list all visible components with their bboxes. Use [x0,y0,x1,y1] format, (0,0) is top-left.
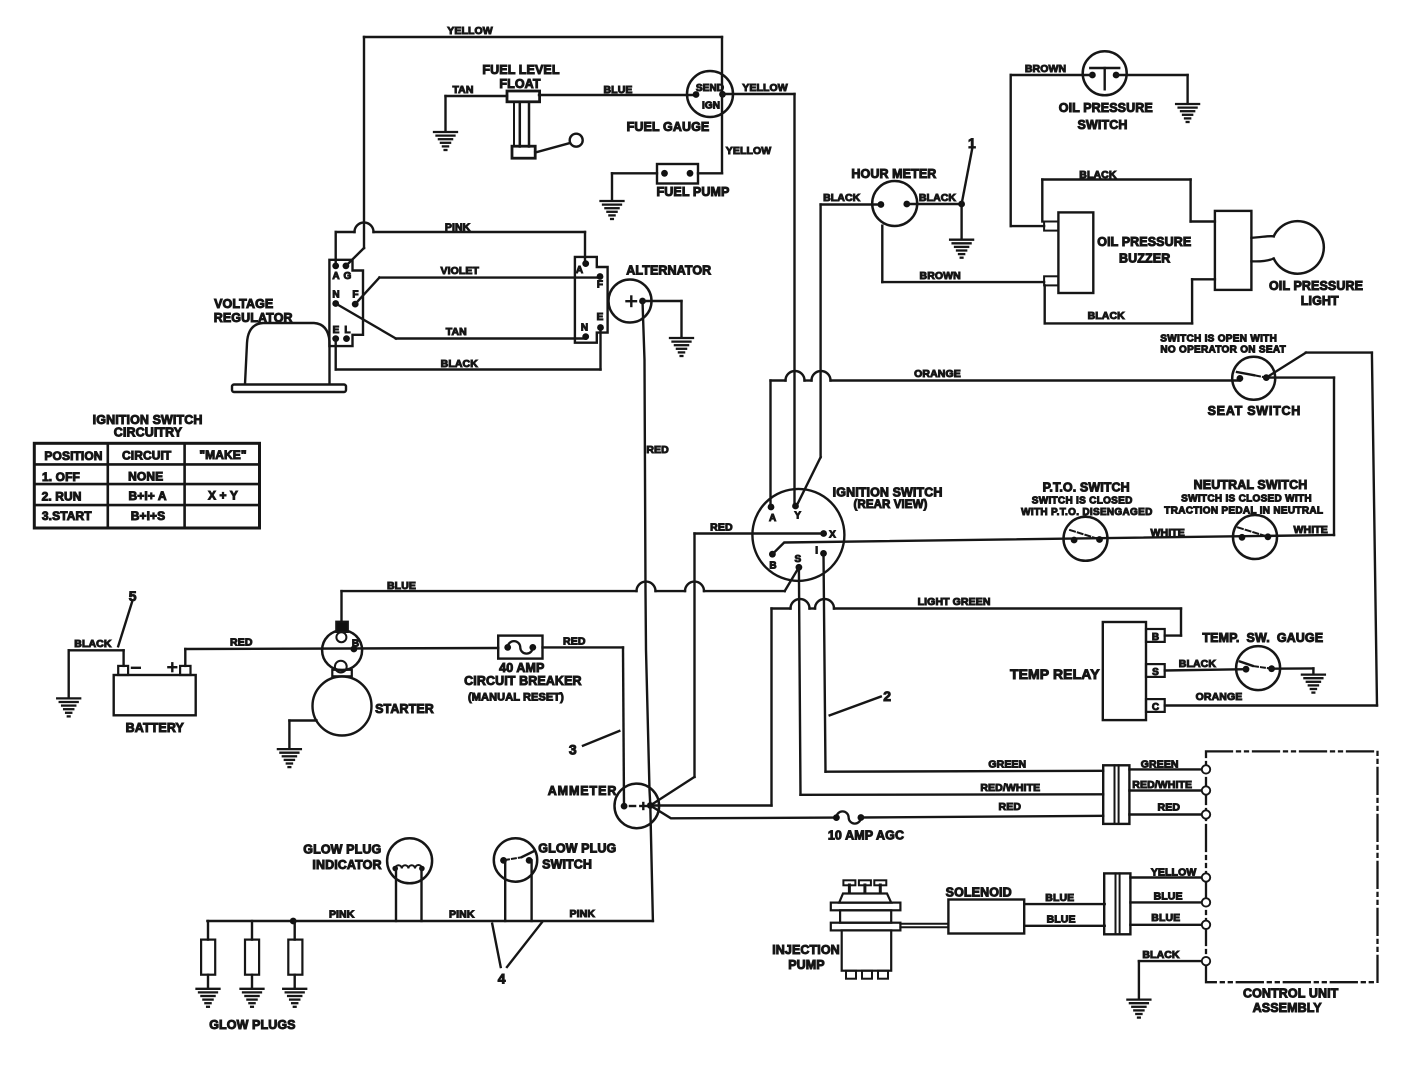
pin S ignition [795,554,803,571]
svg-text:SEND: SEND [696,83,724,94]
svg-text:VIOLET: VIOLET [441,265,480,277]
wire yellow drop to fuel gauge [721,37,723,94]
svg-text:PINK: PINK [449,909,475,921]
svg-text:10 AMP AGC: 10 AMP AGC [828,829,904,843]
wire BROWN hour meter to buzzer [882,226,1044,282]
svg-text:GREEN: GREEN [988,759,1026,771]
temp sw gauge [1202,631,1323,690]
pin N alternator [581,322,589,340]
wire RED fuse feed [650,801,1103,843]
svg-text:S: S [1152,667,1159,678]
injection pump [772,880,900,978]
svg-text:LIGHT: LIGHT [1301,294,1339,308]
svg-text:BLACK: BLACK [1179,658,1217,670]
wire oil switch to ground [1116,75,1188,103]
svg-text:IGN: IGN [702,101,720,112]
svg-text:BLACK: BLACK [919,192,957,204]
svg-text:1. OFF: 1. OFF [42,470,80,484]
wire ORANGE seat switch [771,368,1240,507]
pin L regulator [343,325,351,342]
svg-text:E: E [597,312,604,323]
svg-text:BLUE: BLUE [1047,913,1076,925]
wire pink drop to alternator A [584,262,587,265]
svg-text:BROWN: BROWN [1025,63,1066,75]
svg-text:A: A [576,265,583,276]
neutral switch [1164,478,1323,559]
svg-text:G: G [344,271,352,282]
svg-text:N: N [581,322,588,333]
wire BLUE ignition to starter [342,567,799,621]
svg-text:OIL PRESSURE: OIL PRESSURE [1059,101,1153,115]
svg-text:PINK: PINK [445,222,471,234]
wire BLUE to control unit 1 [1130,891,1202,903]
ground hour meter [950,240,973,258]
svg-text:RED: RED [646,444,669,456]
link pump to solenoid [900,924,948,927]
svg-text:GLOW PLUG: GLOW PLUG [538,841,616,855]
wire RED/WHITE ignition S [799,567,1103,795]
wire BLUE to control unit 2 [1130,912,1202,925]
ground alternator [670,338,693,356]
wire RED alternator down [643,301,670,806]
svg-text:N: N [332,290,339,301]
svg-text:3: 3 [569,742,577,758]
alternator connector block [575,257,608,343]
regulator connector block [329,260,363,346]
svg-text:L: L [344,325,350,336]
svg-text:BLUE: BLUE [604,84,633,96]
svg-text:CIRCUIT: CIRCUIT [122,448,172,462]
wire BLACK battery [69,638,124,697]
wire WHITE [772,524,1334,554]
wire PINK glow plugs [207,806,653,925]
ground glow plug 3 [283,989,306,1007]
svg-text:RED: RED [230,637,253,649]
wire YELLOW gauge to fuel pump [698,94,771,173]
callout 4 leaders [492,922,542,987]
wire fuel pump to ground [612,173,657,200]
svg-text:BLACK: BLACK [823,192,861,204]
wire BLUE float to gauge [539,84,693,96]
svg-text:BLACK: BLACK [1079,169,1117,181]
svg-text:ORANGE: ORANGE [914,368,961,380]
wire BLACK buzzer top [1042,169,1215,222]
svg-text:3.START: 3.START [42,509,92,523]
wire seat switch to white [1266,378,1334,535]
ammeter [548,784,659,829]
ignition switch [752,485,942,581]
hour meter [851,167,936,226]
ground fuel sender [434,132,457,150]
wire LIGHT GREEN [650,596,1181,806]
oil pressure switch [1059,51,1153,132]
svg-text:PINK: PINK [570,908,596,920]
connector lower [1104,873,1130,934]
starter solenoid [322,622,362,673]
svg-text:4: 4 [498,971,506,987]
svg-text:SOLENOID: SOLENOID [946,885,1012,899]
svg-text:REGULATOR: REGULATOR [214,311,293,325]
svg-text:VOLTAGE: VOLTAGE [214,297,273,311]
control unit assembly box [1202,751,1378,1015]
svg-text:FUEL GAUGE: FUEL GAUGE [627,120,710,134]
svg-text:X + Y: X + Y [208,489,238,503]
wire ORANGE temp relay [1165,691,1377,706]
oil pressure buzzer [1044,212,1191,293]
svg-text:LIGHT GREEN: LIGHT GREEN [918,596,991,608]
svg-text:BLACK: BLACK [441,358,479,370]
circuit breaker 40A [464,636,581,704]
svg-text:BLACK: BLACK [74,638,112,650]
svg-text:B+I+S: B+I+S [131,509,166,523]
glow plug 3 [288,921,302,988]
svg-text:RED: RED [563,636,586,648]
svg-text:HOUR METER: HOUR METER [851,167,936,181]
svg-text:RED/WHITE: RED/WHITE [1132,779,1192,791]
pin A alternator [576,260,589,276]
svg-text:FLOAT: FLOAT [499,77,540,91]
svg-text:IGNITION SWITCH: IGNITION SWITCH [833,485,943,499]
svg-text:SEAT SWITCH: SEAT SWITCH [1208,404,1301,418]
wire BROWN oil switch [1011,63,1093,226]
pin I ignition [815,545,827,556]
glow plug 2 [245,921,259,988]
svg-text:ASSEMBLY: ASSEMBLY [1253,1001,1323,1015]
svg-text:BROWN: BROWN [920,270,961,282]
battery [114,663,196,735]
seat switch [1160,334,1301,419]
wire RED battery to starter [185,637,498,666]
wire YELLOW gauge to ignition [724,82,795,506]
svg-text:SWITCH IS CLOSED WITH: SWITCH IS CLOSED WITH [1181,494,1312,505]
temp relay [1010,622,1165,720]
wire RED breaker to ammeter [543,636,625,807]
alternator [609,264,712,323]
svg-text:GLOW PLUG: GLOW PLUG [303,842,381,856]
voltage regulator bell [214,297,346,392]
svg-text:YELLOW: YELLOW [726,145,772,157]
svg-text:5: 5 [129,588,137,604]
svg-text:I: I [815,545,818,556]
solenoid [946,885,1025,933]
svg-text:STARTER: STARTER [375,702,434,716]
oil pressure light [1215,211,1363,308]
svg-text:ORANGE: ORANGE [1196,691,1243,703]
wire YELLOW to control unit [1130,867,1202,879]
svg-text:(MANUAL RESET): (MANUAL RESET) [468,692,564,704]
wire TAN fuel sender [446,84,508,131]
svg-text:WHITE: WHITE [1294,524,1328,536]
pin N regulator [332,290,339,307]
svg-text:PINK: PINK [329,909,355,921]
callout 3 leader [569,731,619,758]
svg-text:40 AMP: 40 AMP [499,661,544,675]
svg-text:CONTROL UNIT: CONTROL UNIT [1243,987,1339,1001]
pin F alternator [597,273,604,290]
pin B ignition [769,551,777,572]
svg-text:Y: Y [794,510,801,521]
svg-text:BLACK: BLACK [1088,310,1126,322]
svg-text:"MAKE": "MAKE" [199,448,246,462]
svg-text:WHITE: WHITE [1151,527,1185,539]
wire BLACK control unit [1139,949,1202,999]
svg-text:NEUTRAL SWITCH: NEUTRAL SWITCH [1194,478,1308,492]
wire GREEN to control unit [1129,758,1202,770]
svg-text:YELLOW: YELLOW [742,82,788,94]
svg-text:B: B [1152,632,1159,643]
svg-text:INDICATOR: INDICATOR [312,858,381,872]
wire BLUE solenoid top [1024,892,1105,904]
pin E alternator [597,312,604,331]
svg-text:FUEL PUMP: FUEL PUMP [657,185,730,199]
svg-text:E: E [333,325,340,336]
svg-text:CIRCUITRY: CIRCUITRY [114,426,183,440]
pin A regulator [332,263,339,283]
label GLOW PLUGS [209,1018,295,1032]
fuel pump [657,164,730,199]
svg-text:BLUE: BLUE [1045,892,1074,904]
wire YELLOW top run [364,25,722,248]
wire RED/WHITE to control unit [1129,779,1202,791]
glow plug 1 [201,921,215,988]
pin X ignition [820,529,836,540]
connector upper [1103,765,1129,824]
wire starter ground [289,721,316,749]
svg-text:TAN: TAN [446,326,467,338]
svg-text:SWITCH IS CLOSED: SWITCH IS CLOSED [1032,495,1133,506]
pin A ignition [768,504,777,524]
svg-text:OIL PRESSURE: OIL PRESSURE [1269,279,1363,293]
wire BLACK hour meter left [797,192,881,506]
svg-text:B: B [352,638,359,649]
svg-text:X: X [829,529,836,540]
callout 2 leader [830,688,892,715]
svg-text:F: F [352,290,358,301]
svg-text:RED/WHITE: RED/WHITE [980,782,1040,794]
svg-text:TEMP RELAY: TEMP RELAY [1010,666,1100,682]
svg-text:F: F [597,279,603,290]
svg-text:WITH P.T.O. DISENGAGED: WITH P.T.O. DISENGAGED [1021,507,1152,518]
svg-text:BLUE: BLUE [1154,891,1183,903]
label FUEL LEVEL FLOAT [482,63,559,91]
pin G regulator [343,263,352,283]
glow plug indicator [303,838,432,921]
pin F regulator [352,290,359,308]
svg-text:RED: RED [1158,802,1181,814]
svg-text:A: A [769,513,776,524]
svg-text:RED: RED [999,801,1022,813]
svg-text:FUEL LEVEL: FUEL LEVEL [482,63,559,77]
svg-text:INJECTION: INJECTION [772,943,840,957]
svg-text:SWITCH: SWITCH [1078,118,1128,132]
svg-text:PUMP: PUMP [788,958,825,972]
svg-text:NONE: NONE [128,470,163,484]
svg-text:C: C [1152,702,1159,713]
svg-text:SWITCH IS OPEN WITH: SWITCH IS OPEN WITH [1160,334,1277,345]
wire RED ignition X [650,522,823,806]
wire BLUE solenoid bottom [1024,913,1105,926]
ground glow plug 1 [197,989,220,1007]
wire GREEN ignition I [824,553,1104,771]
svg-text:GLOW PLUGS: GLOW PLUGS [209,1018,295,1032]
wire alternator to ground [643,301,682,337]
glow plug switch [494,838,616,921]
starter motor [313,670,434,736]
wire PINK [336,222,585,266]
svg-text:A: A [332,271,339,282]
ground control unit [1127,1000,1150,1018]
pin Y ignition [792,503,801,522]
wire VIOLET [355,265,600,304]
wire BLACK buzzer bottom [1045,279,1215,323]
svg-text:BLUE: BLUE [387,580,416,592]
wire BLACK regulator [336,328,601,370]
svg-text:RED: RED [710,522,733,534]
svg-text:POSITION: POSITION [44,449,102,463]
svg-text:YELLOW: YELLOW [447,25,493,37]
ground oil pressure switch [1176,104,1199,122]
svg-text:OIL PRESSURE: OIL PRESSURE [1097,235,1191,249]
svg-text:BATTERY: BATTERY [126,721,185,735]
pin E regulator [332,325,339,342]
svg-text:BLUE: BLUE [1151,912,1180,924]
svg-text:(REAR VIEW): (REAR VIEW) [854,499,928,511]
ground battery [57,698,80,716]
callout 5 leader [118,588,137,647]
ground starter [278,749,301,767]
svg-text:BLACK: BLACK [1142,949,1180,961]
svg-text:P.T.O. SWITCH: P.T.O. SWITCH [1043,480,1130,494]
svg-text:TAN: TAN [452,84,473,96]
ground temp gauge [1302,675,1325,693]
ignition switch circuitry table [34,413,259,528]
wire RED to control unit [1129,802,1202,815]
svg-text:1: 1 [968,135,976,151]
svg-text:TEMP. SW. GAUGE: TEMP. SW. GAUGE [1202,631,1323,645]
wire BLACK temp gauge [1165,658,1314,674]
svg-text:S: S [795,554,802,565]
wire yellow diagonal to G [347,248,365,265]
fuel level float [507,91,583,158]
wire BLACK hour meter right [907,192,965,239]
wire TAN regulator [336,304,586,339]
svg-text:2: 2 [883,688,891,704]
svg-text:AMMETER: AMMETER [548,784,618,798]
svg-text:2. RUN: 2. RUN [42,489,82,503]
svg-text:NO OPERATOR ON SEAT: NO OPERATOR ON SEAT [1160,345,1286,356]
svg-text:ALTERNATOR: ALTERNATOR [626,264,711,278]
fuel gauge [627,71,733,134]
ground fuel pump [601,201,624,219]
svg-text:B: B [769,561,776,572]
svg-text:B+I+ A: B+I+ A [129,489,167,503]
svg-text:TRACTION PEDAL IN NEUTRAL: TRACTION PEDAL IN NEUTRAL [1164,505,1323,516]
callout 1 leader [962,135,976,204]
svg-text:YELLOW: YELLOW [1151,867,1197,879]
svg-text:CIRCUIT BREAKER: CIRCUIT BREAKER [464,674,581,688]
wire seat switch arm to orange relay [1266,353,1377,706]
PTO switch [1021,480,1152,560]
svg-text:BUZZER: BUZZER [1119,252,1170,266]
svg-text:SWITCH: SWITCH [542,858,592,872]
svg-text:GREEN: GREEN [1141,758,1179,770]
ground glow plug 2 [241,989,264,1007]
